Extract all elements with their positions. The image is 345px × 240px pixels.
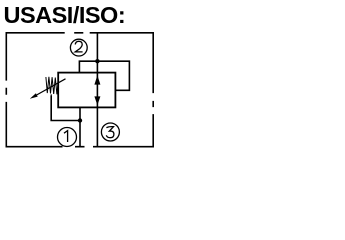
label 1 (64, 131, 68, 142)
node junction at port-2 line (95, 59, 99, 63)
port circle 2 (70, 39, 87, 56)
node junction at port-1 line (78, 118, 82, 122)
spring (adjustable) (46, 77, 59, 96)
label 2 (75, 41, 82, 52)
arrow up inside box (94, 75, 100, 84)
wire port-2 main vertical line (96, 33, 98, 147)
valve envelope box (58, 73, 115, 108)
port circle 3 (101, 123, 119, 141)
port circle 1 (58, 128, 77, 147)
arrow down inside box (94, 96, 100, 105)
wire horizontal to spring drain (51, 96, 80, 121)
title USASI/ISO: (4, 2, 126, 29)
enclosure bottom border (dashed) (6, 146, 153, 148)
adjustment arrow through spring (37, 79, 66, 95)
enclosure right border (dashed) (152, 32, 154, 148)
wire pilot branch left of junction (79, 61, 97, 72)
enclosure top border (dashed) (6, 32, 153, 34)
label 3 (106, 127, 114, 138)
wire pilot loop right (97, 61, 129, 90)
enclosure left border (dashed) (5, 32, 7, 148)
wire port-1 branch below box (79, 107, 81, 146)
